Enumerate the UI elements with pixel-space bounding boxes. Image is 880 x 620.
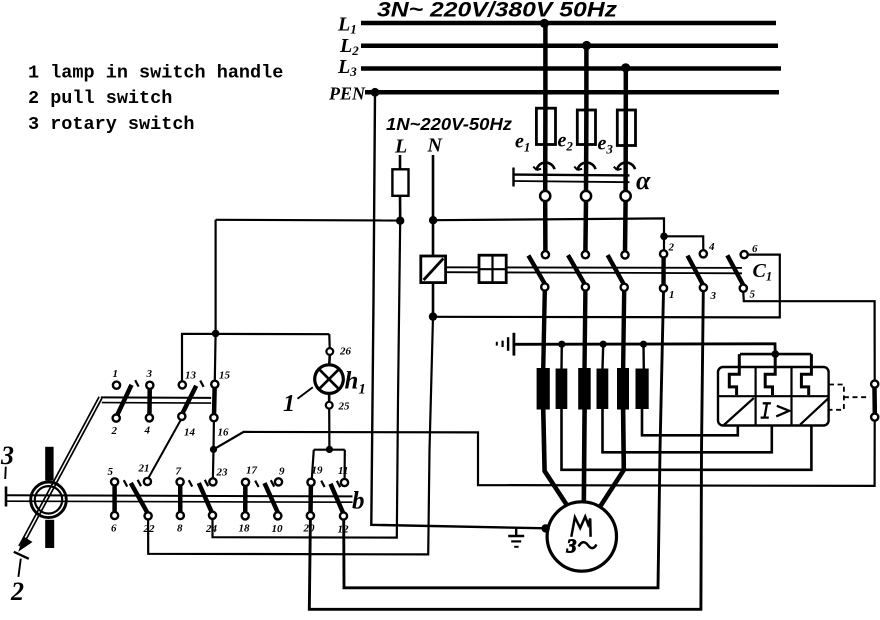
rotary shaft linkage <box>6 495 353 496</box>
wire PEN drop to motor earth <box>371 92 546 528</box>
motor lead V <box>581 408 586 505</box>
wire heater distribution <box>740 353 811 356</box>
pull switch handle tick <box>14 552 29 559</box>
heater bar 4 <box>597 369 609 410</box>
wire lamp 25 to node <box>328 409 330 450</box>
svg-text:24: 24 <box>205 523 218 535</box>
lamp terminal 25 <box>326 402 333 409</box>
wire lamp to terminal 25 <box>328 392 331 402</box>
c1 aux contact 4 <box>700 250 707 257</box>
svg-text:1: 1 <box>283 391 295 417</box>
wire node bracket to contacts 19 and 11 <box>314 449 345 451</box>
svg-text:1 lamp in switch handle: 1 lamp in switch handle <box>28 63 283 84</box>
rotary contact terminal 11 <box>341 479 348 486</box>
wire lamp 26 to lamp <box>328 355 331 366</box>
bus line PEN <box>365 90 779 95</box>
rotary contact terminal 22 <box>145 512 152 519</box>
svg-text:25: 25 <box>338 401 351 413</box>
wire node to contact 23 <box>212 449 215 477</box>
c1 aux blade 1-2 closed <box>661 252 665 291</box>
svg-text:1: 1 <box>113 368 119 380</box>
wire N coil to node <box>432 282 435 317</box>
rotary contact terminal 13 <box>179 381 186 388</box>
rotary blade 5-6 closed <box>112 479 117 520</box>
rotary top deck linkage <box>101 396 211 399</box>
rotary blade 7-8 closed <box>178 479 183 520</box>
wire N lead-in to coil <box>432 155 435 256</box>
wire L down to contact 24 <box>213 221 401 538</box>
overload trip diagonal left <box>724 398 754 425</box>
svg-text:19: 19 <box>312 465 324 477</box>
svg-text:17: 17 <box>246 465 258 477</box>
mechanical latch block <box>479 255 506 282</box>
motor earth terminal dot <box>541 524 549 532</box>
svg-text:7: 7 <box>176 466 182 478</box>
overload relay box <box>718 367 829 426</box>
wire heater bar 2 to relay <box>562 409 812 470</box>
rotary switch hub inner circle <box>35 486 62 513</box>
svg-text:15: 15 <box>219 370 231 382</box>
wire phase 1 fuse to switch a <box>543 108 548 192</box>
svg-text:L: L <box>394 136 407 158</box>
rotary contact terminal 17 <box>242 479 249 486</box>
rotary blade 13-14 open <box>182 386 196 415</box>
lamp h1 <box>315 365 344 394</box>
c1 linkage line <box>446 266 742 269</box>
svg-text:PEN: PEN <box>328 84 366 104</box>
overload trip diagonal right <box>800 398 828 424</box>
svg-text:9: 9 <box>279 466 285 478</box>
switch a linkage bar <box>514 173 630 176</box>
wire N down to contact 22 <box>148 317 433 555</box>
svg-text:2: 2 <box>10 577 24 606</box>
svg-text:12: 12 <box>338 524 350 536</box>
rotary contact terminal 21 <box>144 478 151 485</box>
heater bar 1 <box>537 368 550 410</box>
fuse L <box>392 169 408 196</box>
rotary contact terminal 14 <box>178 413 185 420</box>
svg-text:3N~ 220V/380V 50Hz: 3N~ 220V/380V 50Hz <box>377 0 617 22</box>
contact motion ticks <box>124 380 340 487</box>
svg-text:20: 20 <box>303 523 316 535</box>
wire phase 2 drop from L2 <box>584 46 589 111</box>
svg-text:1: 1 <box>669 289 675 301</box>
wire L lead-in <box>399 155 402 169</box>
rotary blade 3-4 closed <box>147 382 152 421</box>
c1 aux contact 5 <box>740 285 747 292</box>
svg-text:11: 11 <box>338 465 348 477</box>
rotary contact terminal 1 <box>113 382 120 389</box>
wire phase 1 drop from L1 <box>543 23 548 110</box>
fuse e1 <box>536 108 555 144</box>
switch a arc phase 3 <box>617 163 635 170</box>
label I> <box>761 403 790 417</box>
wire branch to c1 contact 4 <box>664 236 703 250</box>
svg-text:18: 18 <box>239 523 251 535</box>
svg-text:26: 26 <box>339 346 352 358</box>
rotary switch hub outer circle <box>31 482 67 518</box>
bus line L3 <box>361 66 781 70</box>
svg-text:16: 16 <box>218 427 230 439</box>
wire earth rail to overload heaters <box>514 344 775 354</box>
rotary contact numbers bottom row <box>108 463 350 536</box>
wire N to c1 contact 2 <box>433 218 664 250</box>
contactor main blade 1 <box>528 256 545 286</box>
lamp pointer line <box>298 387 313 399</box>
overload heater element 1 <box>729 354 739 395</box>
wire heater bar 2 drop <box>560 344 563 369</box>
contactor main blade 3 <box>608 255 625 286</box>
pointer line to label 2 <box>18 559 20 577</box>
wire L fuse to node <box>399 196 402 221</box>
c1 aux contact 6 <box>741 251 748 258</box>
svg-text:10: 10 <box>272 523 284 535</box>
svg-text:b: b <box>352 488 365 515</box>
motor lead U <box>543 408 568 507</box>
rotary contact terminal 19 <box>307 479 314 486</box>
wire contactor to heater bars <box>543 291 545 371</box>
overload heater element 3 <box>801 354 811 395</box>
rotary blade 9-10 open <box>265 483 279 514</box>
wire heater bar 6 drop <box>642 344 645 369</box>
rotary contact terminal 18 <box>242 512 249 519</box>
rotary blade 23-24 open <box>199 483 213 514</box>
rotary contact terminal 10 <box>274 512 281 519</box>
svg-text:3: 3 <box>566 536 577 558</box>
rotary blade 17-18 closed <box>243 479 248 520</box>
contactor coil c1 <box>421 256 446 283</box>
heater bar 3 <box>578 368 591 410</box>
heater bar 5 <box>617 368 629 410</box>
wire c1 contact 6 loop to N node <box>433 255 780 318</box>
wire L to rotary node <box>216 219 401 222</box>
motor lead W <box>600 408 624 508</box>
rotary contact terminal 7 <box>177 478 184 485</box>
ground symbol at motor <box>508 528 524 547</box>
wire node to contact 13 <box>182 334 329 382</box>
svg-text:N: N <box>427 135 444 157</box>
wire contact 14 to contact 21 <box>149 420 181 477</box>
svg-text:5: 5 <box>750 289 756 301</box>
c1 aux contact 2 <box>660 250 667 257</box>
wire heater bar 6 to relay <box>642 409 738 436</box>
rotary blade 21-22 open <box>131 483 148 514</box>
c1 aux blade 5-6 open <box>727 255 744 286</box>
contactor main contact bottom circles <box>541 283 548 290</box>
wire heater bar 4 drop <box>601 344 604 369</box>
wire contact 16 to node <box>212 421 215 449</box>
svg-text:13: 13 <box>185 370 197 382</box>
rotary contact terminal 5 <box>111 478 118 485</box>
bus line L2 <box>361 43 778 48</box>
svg-text:5: 5 <box>108 466 114 478</box>
wire rotary node to overload trip contact <box>214 421 875 486</box>
wire node to lamp terminal 26 <box>328 334 331 348</box>
wire c1 contact 5 to trip contact <box>743 292 874 380</box>
rotary contact terminal 9 <box>275 478 282 485</box>
svg-text:4: 4 <box>708 241 715 253</box>
switch a contact circles <box>540 191 550 201</box>
rotary contact terminal 2 <box>113 415 120 422</box>
switch a arc phase 2 <box>578 163 596 170</box>
rotary contact terminal 15 <box>211 381 218 388</box>
svg-text:6: 6 <box>111 523 117 535</box>
rotary contact terminal 12 <box>340 512 347 519</box>
svg-text:8: 8 <box>177 523 183 535</box>
rotary contact terminal 3 <box>146 382 153 389</box>
motor M circle <box>547 502 616 571</box>
svg-text:23: 23 <box>216 467 229 479</box>
overload heater element 2 <box>765 354 775 395</box>
pointer dash from label 3 <box>4 467 7 479</box>
c1 aux blade 3-4 open <box>688 256 705 287</box>
rotary contact terminal 23 <box>209 478 216 485</box>
fuse e3 <box>617 110 635 146</box>
overload trip contact circles <box>871 381 878 388</box>
wire heater bar 4 to relay <box>603 409 772 453</box>
svg-text:14: 14 <box>184 427 196 439</box>
contactor main blade 2 <box>568 255 585 285</box>
wire rotary node down <box>215 220 217 334</box>
svg-text:2: 2 <box>668 242 675 254</box>
rotary switch wafer bar top <box>45 447 53 481</box>
rotary switch wafer bar bottom <box>45 520 54 548</box>
c1 aux contact 1 <box>660 285 667 292</box>
rotary blade 11-12 open <box>331 484 344 514</box>
heater bar 6 <box>636 369 649 410</box>
rotary blade 19-20 closed <box>308 479 313 520</box>
svg-text:2 pull switch: 2 pull switch <box>28 88 172 109</box>
svg-text:22: 22 <box>143 523 156 535</box>
svg-text:3 rotary switch: 3 rotary switch <box>28 114 195 135</box>
svg-text:3: 3 <box>710 290 717 302</box>
motor letter M <box>571 517 590 537</box>
overload mechanical linkage dashed <box>829 385 870 410</box>
rotary blade 15-16 closed <box>212 381 217 421</box>
rotary contact terminal 8 <box>177 512 184 519</box>
wire switch a to contactor <box>543 201 548 252</box>
contactor main contact top circles <box>542 251 549 258</box>
shaft end cap <box>5 487 8 507</box>
svg-text:4: 4 <box>144 425 151 437</box>
switch a arc phase 1 <box>537 163 555 170</box>
c1 aux contact 3 <box>700 284 707 291</box>
rotary contact terminal 24 <box>209 512 216 519</box>
bus line L1 <box>361 21 776 26</box>
wire phase 3 drop from L3 <box>624 69 629 112</box>
pull switch diagonal rod <box>22 398 102 547</box>
rotary contact numbers top row <box>111 368 231 439</box>
rotary contact terminal 4 <box>146 414 153 421</box>
svg-text:3: 3 <box>0 441 14 470</box>
svg-text:1N~220V-50Hz: 1N~220V-50Hz <box>386 114 512 134</box>
svg-text:6: 6 <box>752 243 758 255</box>
wire c1 contact 3 to rotary contact 20 <box>309 291 703 609</box>
rotary contact terminal 20 <box>307 512 314 519</box>
rotary contact terminal 6 <box>111 512 118 519</box>
fuse e2 <box>577 110 595 145</box>
rotary blade 1-2 open <box>117 385 132 416</box>
overload trip blade closed <box>872 381 877 420</box>
rotary contact terminal 16 <box>210 414 217 421</box>
pull switch arrowhead <box>18 537 32 552</box>
ground symbol at heater rail <box>497 333 514 356</box>
lamp terminal 26 <box>326 348 333 355</box>
wire c1 contact 1 to rotary contact 12 <box>344 292 664 588</box>
svg-text:3: 3 <box>146 368 153 380</box>
svg-text:2: 2 <box>111 425 118 437</box>
svg-text:21: 21 <box>138 463 150 475</box>
svg-text:α: α <box>636 166 651 195</box>
heater bar 2 <box>556 369 568 410</box>
wire node to contact 15 <box>214 334 217 381</box>
